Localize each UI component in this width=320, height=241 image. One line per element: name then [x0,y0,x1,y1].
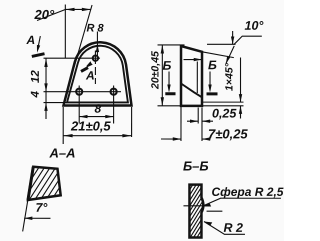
R8 arrowhead on arc [96,44,99,52]
section B-B outline with sphere bulge [189,185,203,238]
arrow left of 20deg dim [65,8,74,11]
vertical centerline / ext line bottom-left hole [78,85,80,123]
hole top vertical centerline [94,50,96,83]
arrow 0,25 left [190,120,198,123]
svg-text:8: 8 [95,102,102,116]
svg-text:20°: 20° [34,7,55,22]
centerline horizontal through bottom holes / ext line for 12-4 [44,91,122,93]
hole bottom-right [111,89,117,95]
hole top [93,55,98,60]
7deg extension line [23,184,31,232]
svg-text:21±0,5: 21±0,5 [70,118,111,133]
svg-text:R 2: R 2 [223,221,243,235]
dim 0,25 right segment [202,120,213,122]
dim 7 right segment [202,138,211,140]
arrow down at 91.7 [44,83,47,91]
1x45 pointer arrowhead [226,56,231,64]
arrow 20 top [161,45,164,54]
B-B horizontal centerline [183,205,210,207]
inner vertical line [196,62,198,93]
svg-text:10°: 10° [245,19,265,33]
svg-text:Б: Б [163,59,172,73]
svg-text:Сфера R 2,5: Сфера R 2,5 [211,185,283,199]
arrow up at 105.5 (from below) [44,103,47,111]
10deg arrowhead [231,37,234,45]
ext line 0,25 right / also 7 right [201,108,203,141]
inner diagonal [181,84,202,98]
part outline inner contour [67,46,128,103]
ext line 20 bottom [158,105,182,107]
20deg dimension line [65,8,91,10]
section arrow A outer: arrow line [38,36,41,49]
svg-text:A: A [26,33,36,47]
dim line 20 vertical [161,45,163,106]
section arrow A outer: thick bar [32,54,45,57]
svg-text:1×45°: 1×45° [224,62,236,91]
vertical centerline / ext line bottom-right hole [113,85,115,123]
svg-text:R 8: R 8 [87,22,105,34]
hole bottom-left [76,89,82,95]
10deg leader [234,36,262,44]
dim line 12/4 vertical [45,58,47,119]
arrowhead 1x45 lower [239,106,242,114]
svg-text:7±0,25: 7±0,25 [208,126,248,141]
ext line of bottom edge to left [44,102,68,104]
10deg slant extension [202,52,234,58]
ext line 21 right [131,107,133,137]
section arrow B left: thick bar [165,92,175,95]
ext line 21 left [62,107,64,144]
dim line 1x45 vertical lower [240,106,242,119]
ext line chamfer bottom / bottom edge extended [202,105,243,107]
arrow left of 8 [79,115,87,118]
centerline horizontal through top hole / ext line for 12 [44,57,100,59]
arrow up at 58.2 [44,58,47,67]
7deg arrow line [24,217,50,219]
10deg horizontal reference [207,43,236,45]
arrowhead right on inner line [194,58,202,61]
leader from 20deg text [37,9,65,20]
R2 leader arrowhead [204,222,212,226]
svg-text:7°: 7° [35,201,48,215]
arrow left 21 [63,134,72,137]
section arrow B left: arrowhead [167,85,170,93]
section B-B hatching [184,148,209,241]
svg-text:4: 4 [30,90,42,98]
svg-text:20±0,45: 20±0,45 [150,51,162,90]
svg-text:A–A: A–A [48,145,75,160]
10deg vertical arrow line [232,31,234,44]
side outline [181,46,202,106]
dim line 8 [79,116,113,118]
svg-text:A: A [85,68,95,82]
sphere leader line [202,198,281,206]
arrow right 21 [122,134,131,137]
section arrow A inner: arrow line [87,62,91,67]
short line right [207,210,223,212]
ext line 7 left [180,107,182,141]
section arrow A inner: arrowhead [85,62,92,68]
section arrow B right: thick bar [207,92,218,95]
20deg vertical extension line [64,4,66,58]
dim line 1x45 vertical upper [240,58,242,103]
R8 leader line [96,31,98,55]
part outline outer [64,42,132,105]
section arrow B left: arrow line [168,72,170,91]
svg-text:0,25: 0,25 [212,107,237,121]
arrow right of 8 [105,115,113,118]
ext line chamfer top [203,101,244,103]
arrowhead 1x45 upper [239,94,242,102]
20deg slant extension of left edge [74,5,92,67]
arrow 7 right [202,137,210,140]
section arrow B right: arrow line [209,72,211,91]
ext line 20 top [158,44,185,46]
section arrow B right: arrowhead [208,85,211,93]
svg-text:12: 12 [30,70,42,83]
dim 0,25 left segment [187,120,198,122]
7deg arrowhead [24,217,32,220]
inner horizontal arrow line [184,59,202,61]
section A-A outline [28,167,61,200]
dim 7 left segment [161,138,181,140]
section arrow A outer: arrowhead [37,45,40,53]
arrow 7 left [173,137,181,140]
svg-text:Б: Б [208,58,217,72]
1x45 pointer line [226,46,234,64]
R2 leader line [204,222,245,235]
section A-A left edge emphasis [28,167,33,200]
sphere leader arrowhead [202,204,211,207]
dim line 21 [63,135,131,137]
arrow 20 bottom [161,97,164,106]
arrow 0,25 right [202,120,210,123]
svg-text:Б–Б: Б–Б [183,159,209,174]
section A-A hatching [16,160,94,203]
section arrow A inner: thick bar [81,68,88,72]
arrow right of 20deg dim [82,8,91,11]
ext line 0,25 left [197,108,199,124]
